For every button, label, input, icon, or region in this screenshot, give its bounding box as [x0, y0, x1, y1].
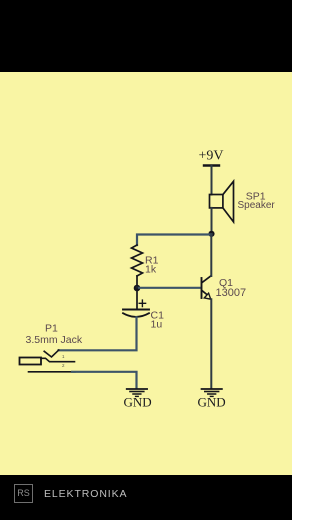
jack P1 sleeve line — [29, 371, 76, 373]
svg-text:Speaker: Speaker — [238, 200, 276, 211]
speaker SP1 — [210, 181, 234, 222]
svg-text:1u: 1u — [151, 319, 163, 331]
jack P1 plug body — [20, 358, 42, 365]
wire C1 top lead — [136, 288, 138, 309]
logo text ELEKTRONIKA — [44, 488, 127, 500]
jack P1 tip contact chevron — [44, 350, 59, 357]
wire rail to speaker — [211, 166, 213, 195]
transistor Q1 collector stroke — [202, 276, 211, 283]
logo RS box — [14, 484, 33, 503]
wire collector to node — [210, 234, 212, 276]
power rail +9V bar — [204, 164, 219, 166]
svg-text:13007: 13007 — [216, 287, 247, 299]
capacitor C1 bottom plate — [123, 313, 149, 317]
svg-text:1: 1 — [62, 354, 65, 359]
wire R1 bottom lead — [136, 276, 138, 288]
wire sleeve to ground — [72, 372, 137, 388]
ground left — [127, 389, 147, 396]
svg-text:1k: 1k — [145, 264, 157, 276]
junction node collector rail — [208, 231, 214, 237]
ground right — [202, 389, 222, 396]
svg-text:3.5mm Jack: 3.5mm Jack — [26, 334, 83, 346]
svg-text:GND: GND — [198, 394, 226, 409]
capacitor C1 top plate — [123, 309, 149, 311]
transistor Q1 base bar — [201, 278, 203, 298]
transistor Q1 emitter arrow — [204, 293, 210, 299]
transistor Q1 emitter stroke — [202, 291, 207, 295]
svg-text:2: 2 — [62, 363, 65, 368]
wire base node to Q1 — [137, 287, 200, 289]
bottom black bar — [0, 475, 292, 520]
wire node to R1 top — [137, 235, 212, 246]
wire speaker to node — [211, 208, 213, 234]
wire emitter down — [210, 299, 212, 388]
junction node base — [134, 285, 141, 292]
svg-text:GND: GND — [124, 394, 152, 409]
capacitor C1 plus sign — [139, 300, 145, 306]
svg-text:+9V: +9V — [199, 149, 224, 164]
top black letterbox bar — [0, 0, 292, 72]
wire C1 bottom to jack tip — [59, 317, 137, 350]
resistor R1 — [132, 245, 143, 276]
jack P1 plug tip line — [41, 358, 75, 361]
svg-text:P1: P1 — [45, 323, 58, 335]
